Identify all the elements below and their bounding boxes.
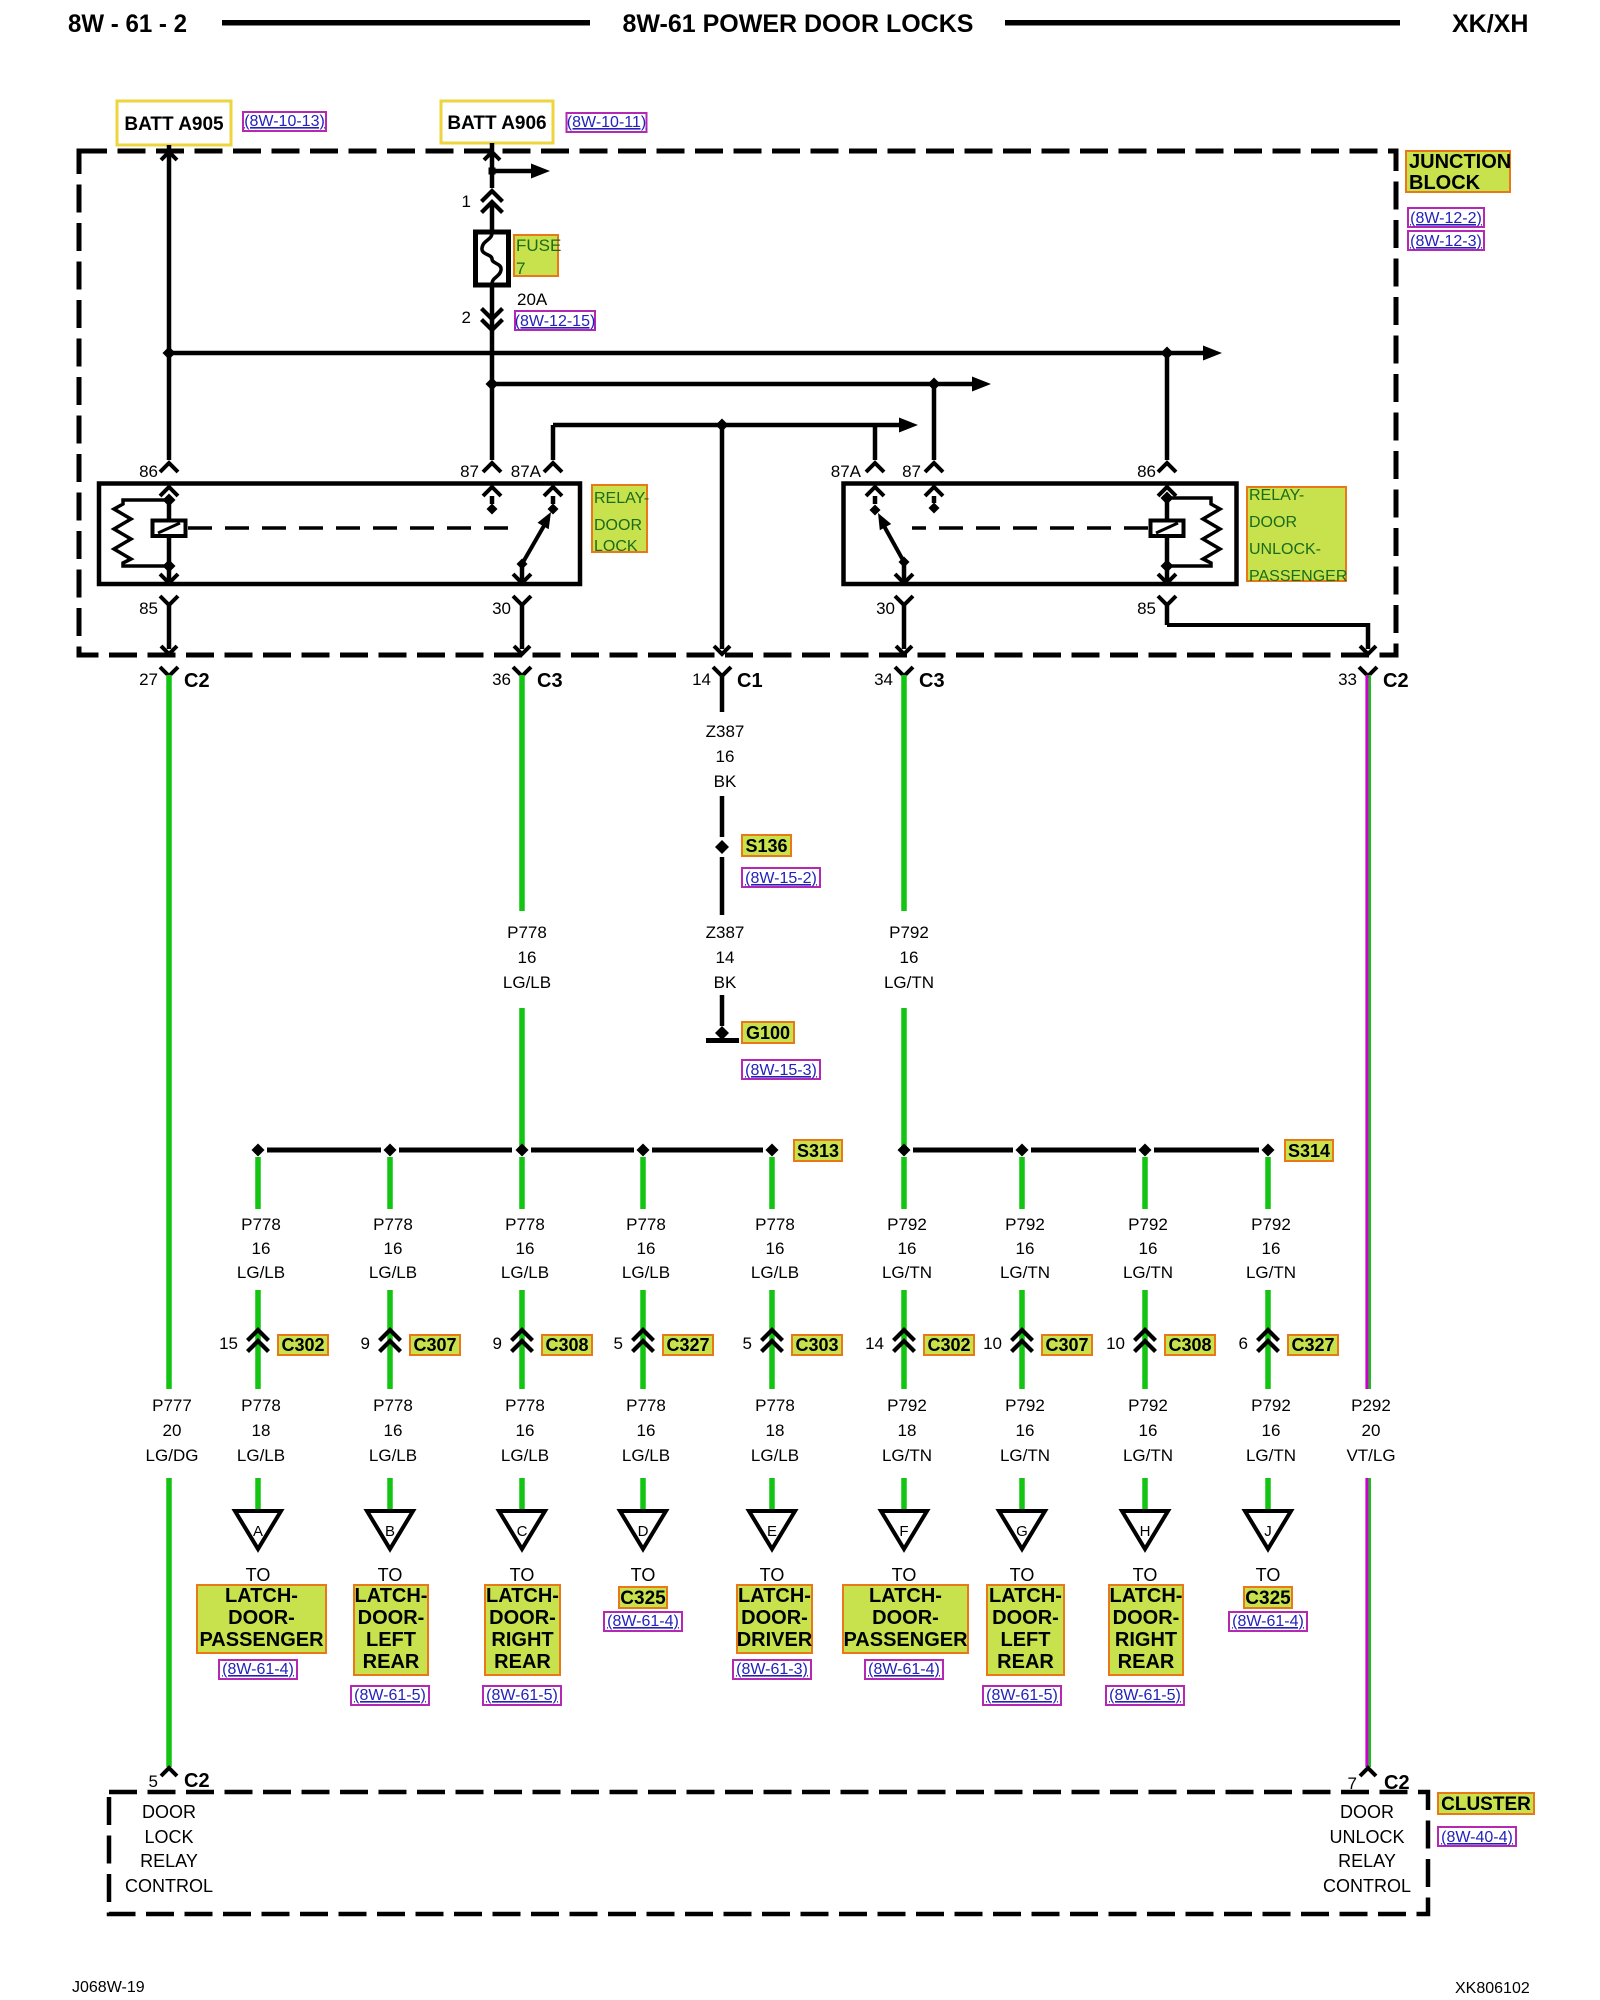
coil relay K2 bbox=[1151, 492, 1221, 573]
svg-text:8W - 61 - 2: 8W - 61 - 2 bbox=[68, 10, 187, 38]
offpage triangle C bbox=[499, 1511, 545, 1549]
link 8W-15-2 bbox=[742, 868, 820, 887]
offpage triangle J bbox=[1245, 1511, 1291, 1549]
pin 85 relay K1 bbox=[139, 566, 178, 618]
connector C1 pin 14 bbox=[692, 646, 763, 692]
svg-text:(8W-61-5): (8W-61-5) bbox=[354, 1687, 426, 1704]
svg-text:RIGHT: RIGHT bbox=[491, 1629, 553, 1651]
svg-text:S136: S136 bbox=[745, 836, 787, 856]
power feed BATT A906 bbox=[441, 101, 553, 143]
svg-text:DOOR-: DOOR- bbox=[1113, 1607, 1180, 1629]
wire branch E to triangle bbox=[769, 1478, 775, 1512]
svg-text:16: 16 bbox=[1139, 1421, 1158, 1440]
connector C327 pin 5 bbox=[614, 1330, 713, 1355]
svg-text:DOOR: DOOR bbox=[594, 517, 642, 534]
label P778 16 LG/LB branch B bbox=[369, 1215, 417, 1282]
pin 87A relay K1 bbox=[511, 462, 562, 515]
svg-text:XK806102: XK806102 bbox=[1455, 1980, 1530, 1997]
label P792 16 LG/TN branch J bbox=[1246, 1215, 1296, 1282]
switch blade relay K2 bbox=[878, 513, 910, 568]
svg-text:(8W-61-4): (8W-61-4) bbox=[1232, 1613, 1304, 1630]
svg-text:P778: P778 bbox=[505, 1396, 545, 1415]
fuse F7 bbox=[476, 232, 509, 285]
svg-text:10: 10 bbox=[1106, 1334, 1125, 1353]
svg-text:LG/LB: LG/LB bbox=[501, 1263, 549, 1282]
svg-text:LATCH-: LATCH- bbox=[1110, 1585, 1183, 1607]
svg-text:H: H bbox=[1140, 1523, 1151, 1540]
cluster module boundary bbox=[109, 1792, 1428, 1914]
svg-text:P792: P792 bbox=[1005, 1396, 1045, 1415]
splice S314 label bbox=[1285, 1140, 1333, 1161]
svg-text:LOCK: LOCK bbox=[594, 538, 638, 555]
svg-text:5: 5 bbox=[614, 1334, 623, 1353]
svg-text:(8W-61-5): (8W-61-5) bbox=[1109, 1687, 1181, 1704]
svg-text:DOOR-: DOOR- bbox=[872, 1607, 939, 1629]
svg-text:18: 18 bbox=[252, 1421, 271, 1440]
svg-text:UNLOCK: UNLOCK bbox=[1329, 1827, 1404, 1847]
svg-text:16: 16 bbox=[384, 1421, 403, 1440]
wire pin30 K1 to C3-36 bbox=[520, 604, 525, 649]
svg-text:8W-61 POWER DOOR LOCKS: 8W-61 POWER DOOR LOCKS bbox=[623, 10, 974, 38]
wire branch D to triangle bbox=[640, 1478, 646, 1512]
wire branch J mid bbox=[1265, 1290, 1271, 1389]
svg-text:(8W-12-2): (8W-12-2) bbox=[1410, 210, 1482, 227]
svg-text:BK: BK bbox=[714, 772, 737, 791]
label P778 16 LG/LB branch A bbox=[237, 1215, 285, 1282]
svg-text:BATT A905: BATT A905 bbox=[124, 114, 224, 135]
wire fuse input bbox=[490, 205, 495, 232]
wire P778 trunk from C3-36 bbox=[519, 675, 525, 911]
label door unlock relay control bbox=[1323, 1802, 1411, 1896]
svg-text:LG/TN: LG/TN bbox=[1123, 1263, 1173, 1282]
connector C327 pin 6 bbox=[1239, 1330, 1338, 1355]
svg-text:1: 1 bbox=[462, 192, 471, 211]
svg-text:30: 30 bbox=[492, 599, 511, 618]
connector C302 pin 14 bbox=[865, 1330, 974, 1355]
svg-text:PASSENGER: PASSENGER bbox=[843, 1629, 968, 1651]
svg-text:85: 85 bbox=[1137, 599, 1156, 618]
svg-text:E: E bbox=[767, 1523, 777, 1540]
svg-text:16: 16 bbox=[637, 1239, 656, 1258]
svg-text:D: D bbox=[638, 1523, 649, 1540]
wire branch F to triangle bbox=[901, 1478, 907, 1512]
wire Z387 ground leg upper bbox=[720, 676, 725, 712]
link (8W-61-4) at x904 bbox=[865, 1660, 943, 1679]
power feed BATT A905 bbox=[117, 101, 231, 145]
wire rail 87A common bbox=[553, 418, 918, 461]
svg-text:JUNCTION: JUNCTION bbox=[1409, 151, 1511, 173]
svg-text:16: 16 bbox=[637, 1421, 656, 1440]
offpage triangle E bbox=[749, 1511, 795, 1549]
svg-text:C327: C327 bbox=[666, 1335, 709, 1355]
svg-text:14: 14 bbox=[865, 1334, 884, 1353]
svg-text:CONTROL: CONTROL bbox=[125, 1876, 213, 1896]
pin 86 relay K2 bbox=[1137, 462, 1176, 498]
svg-text:C307: C307 bbox=[413, 1335, 456, 1355]
svg-text:DOOR-: DOOR- bbox=[228, 1607, 295, 1629]
svg-text:C302: C302 bbox=[927, 1335, 970, 1355]
svg-text:16: 16 bbox=[252, 1239, 271, 1258]
svg-text:P778: P778 bbox=[755, 1396, 795, 1415]
svg-text:2: 2 bbox=[462, 308, 471, 327]
svg-text:FUSE: FUSE bbox=[516, 236, 561, 255]
svg-text:S314: S314 bbox=[1288, 1141, 1330, 1161]
offpage triangle D bbox=[620, 1511, 666, 1549]
label P792 16 LG/TN trunk bbox=[884, 923, 934, 992]
svg-text:P792: P792 bbox=[1251, 1396, 1291, 1415]
svg-text:G: G bbox=[1016, 1523, 1028, 1540]
svg-text:16: 16 bbox=[1016, 1421, 1035, 1440]
destination label at x522 bbox=[485, 1565, 560, 1675]
svg-text:DOOR: DOOR bbox=[142, 1802, 196, 1822]
svg-text:18: 18 bbox=[898, 1421, 917, 1440]
coil relay K1 bbox=[114, 494, 186, 573]
svg-text:LG/LB: LG/LB bbox=[237, 1263, 285, 1282]
svg-text:(8W-15-3): (8W-15-3) bbox=[745, 1062, 817, 1079]
svg-text:36: 36 bbox=[492, 670, 511, 689]
junction block label bbox=[1406, 151, 1511, 194]
label P792 16 LG/TN branch F bbox=[882, 1215, 932, 1282]
svg-text:(8W-15-2): (8W-15-2) bbox=[745, 870, 817, 887]
link 8W-12-3 bbox=[1408, 231, 1484, 250]
svg-text:16: 16 bbox=[1016, 1239, 1035, 1258]
svg-text:LEFT: LEFT bbox=[1001, 1629, 1051, 1651]
svg-text:C307: C307 bbox=[1045, 1335, 1088, 1355]
svg-text:LG/DG: LG/DG bbox=[146, 1446, 199, 1465]
svg-text:VT/LG: VT/LG bbox=[1346, 1446, 1395, 1465]
svg-text:P792: P792 bbox=[1128, 1215, 1168, 1234]
svg-text:87: 87 bbox=[902, 462, 921, 481]
wire rail from A905 to relay2 pin 86 bbox=[163, 346, 1223, 461]
label P792 16 LG/TN branch H lower bbox=[1123, 1396, 1173, 1465]
connector C302 pin 15 bbox=[219, 1330, 328, 1355]
junction node with offpage arrow bbox=[489, 164, 551, 179]
svg-text:14: 14 bbox=[716, 948, 735, 967]
svg-text:REAR: REAR bbox=[363, 1651, 420, 1673]
svg-text:LG/TN: LG/TN bbox=[1246, 1263, 1296, 1282]
svg-text:16: 16 bbox=[384, 1239, 403, 1258]
destination label at x904 bbox=[843, 1565, 968, 1653]
svg-text:TO: TO bbox=[378, 1565, 403, 1585]
svg-text:9: 9 bbox=[493, 1334, 502, 1353]
destination label at x390 bbox=[354, 1565, 428, 1675]
link 8W-10-11 bbox=[567, 113, 647, 132]
svg-text:C2: C2 bbox=[184, 1770, 210, 1792]
svg-text:CLUSTER: CLUSTER bbox=[1441, 1794, 1531, 1815]
pin 86 relay K1 bbox=[139, 462, 178, 500]
wire branch H to triangle bbox=[1142, 1478, 1148, 1512]
svg-text:P778: P778 bbox=[626, 1396, 666, 1415]
wire branch B to triangle bbox=[387, 1478, 393, 1512]
pin 30 relay K1 bbox=[492, 564, 531, 618]
svg-text:TO: TO bbox=[510, 1565, 535, 1585]
connector C303 pin 5 bbox=[743, 1330, 842, 1355]
label P778 16 LG/LB trunk bbox=[503, 923, 551, 992]
svg-text:(8W-61-5): (8W-61-5) bbox=[486, 1687, 558, 1704]
svg-text:87A: 87A bbox=[511, 462, 542, 481]
cluster label bbox=[1438, 1793, 1534, 1815]
svg-text:J068W-19: J068W-19 bbox=[72, 1979, 145, 1996]
svg-text:C3: C3 bbox=[537, 670, 563, 692]
svg-text:RELAY-: RELAY- bbox=[1249, 487, 1304, 504]
label P778 18 LG/LB branch A lower bbox=[237, 1396, 285, 1465]
svg-text:27: 27 bbox=[139, 670, 158, 689]
ground G100 label bbox=[742, 1022, 794, 1043]
connector pin 2 of fuse bbox=[462, 308, 503, 330]
svg-text:PASSENGER: PASSENGER bbox=[1249, 568, 1347, 585]
branch G stub bbox=[1019, 1157, 1025, 1209]
svg-text:C302: C302 bbox=[281, 1335, 324, 1355]
svg-text:LG/LB: LG/LB bbox=[501, 1446, 549, 1465]
svg-text:87A: 87A bbox=[831, 462, 862, 481]
svg-text:C: C bbox=[517, 1523, 528, 1540]
svg-text:LG/TN: LG/TN bbox=[1246, 1446, 1296, 1465]
svg-text:P792: P792 bbox=[1128, 1396, 1168, 1415]
svg-text:RELAY-: RELAY- bbox=[594, 490, 649, 507]
connector C3 pin 34 bbox=[874, 646, 945, 692]
svg-text:C303: C303 bbox=[795, 1335, 838, 1355]
wire branch E mid bbox=[769, 1290, 775, 1389]
connector pin 1 of fuse bbox=[462, 191, 503, 213]
svg-text:TO: TO bbox=[631, 1565, 656, 1585]
svg-text:16: 16 bbox=[1262, 1421, 1281, 1440]
svg-text:9: 9 bbox=[361, 1334, 370, 1353]
wire P292 lower violet bbox=[1367, 1478, 1370, 1767]
svg-text:16: 16 bbox=[900, 948, 919, 967]
connector C308 pin 10 bbox=[1106, 1330, 1215, 1355]
label door lock relay control bbox=[125, 1802, 213, 1896]
wire drop to C1 bbox=[720, 425, 725, 649]
wire P777 lower bbox=[166, 1478, 172, 1767]
svg-text:LOCK: LOCK bbox=[144, 1827, 193, 1847]
coil to blade dashed link bbox=[188, 526, 514, 530]
svg-text:RELAY: RELAY bbox=[1338, 1851, 1396, 1871]
offpage triangle F bbox=[881, 1511, 927, 1549]
link (8W-61-4) at x1268 bbox=[1229, 1612, 1307, 1631]
label Z387 14 BK bbox=[706, 923, 745, 992]
link (8W-61-5) at x390 bbox=[351, 1686, 429, 1705]
wire P792 trunk from C3-34 bbox=[901, 675, 907, 911]
svg-text:16: 16 bbox=[516, 1421, 535, 1440]
svg-text:UNLOCK-: UNLOCK- bbox=[1249, 541, 1321, 558]
svg-text:(8W-12-15): (8W-12-15) bbox=[515, 313, 596, 330]
svg-text:33: 33 bbox=[1338, 670, 1357, 689]
wire branch B mid bbox=[387, 1290, 393, 1389]
label Z387 16 BK bbox=[706, 722, 745, 791]
label P778 16 LG/LB branch C lower bbox=[501, 1396, 549, 1465]
label P792 16 LG/TN branch G bbox=[1000, 1215, 1050, 1282]
svg-text:86: 86 bbox=[139, 462, 158, 481]
wire Z387 to splice bbox=[720, 796, 725, 837]
offpage triangle B bbox=[367, 1511, 413, 1549]
ground G100 bbox=[706, 1026, 739, 1043]
relay K1 label bbox=[592, 485, 649, 555]
svg-text:P792: P792 bbox=[1005, 1215, 1045, 1234]
link 8W-10-13 bbox=[243, 112, 326, 131]
label P792 16 LG/TN branch J lower bbox=[1246, 1396, 1296, 1465]
destination label at x1268 bbox=[1244, 1565, 1292, 1609]
svg-text:P792: P792 bbox=[887, 1215, 927, 1234]
svg-text:REAR: REAR bbox=[494, 1651, 551, 1673]
destination label at x1145 bbox=[1109, 1565, 1183, 1675]
link (8W-61-5) at x522 bbox=[483, 1686, 561, 1705]
svg-text:J: J bbox=[1264, 1523, 1272, 1540]
link (8W-61-5) at x1022 bbox=[983, 1686, 1061, 1705]
svg-text:10: 10 bbox=[983, 1334, 1002, 1353]
splice S136 label bbox=[742, 835, 791, 856]
pin 87 relay K1 bbox=[460, 462, 501, 515]
svg-text:LATCH-: LATCH- bbox=[869, 1585, 942, 1607]
svg-text:F: F bbox=[899, 1523, 908, 1540]
svg-text:(8W-10-11): (8W-10-11) bbox=[567, 114, 646, 131]
connector C3 pin 36 bbox=[492, 646, 563, 692]
svg-text:Z387: Z387 bbox=[706, 923, 745, 942]
offpage triangle A bbox=[235, 1511, 281, 1549]
svg-text:16: 16 bbox=[516, 1239, 535, 1258]
svg-text:BLOCK: BLOCK bbox=[1409, 172, 1481, 194]
svg-text:TO: TO bbox=[246, 1565, 271, 1585]
label P778 16 LG/LB branch D lower bbox=[622, 1396, 670, 1465]
branch A stub bbox=[255, 1157, 261, 1209]
link (8W-61-3) at x772 bbox=[733, 1660, 811, 1679]
svg-text:TO: TO bbox=[1010, 1565, 1035, 1585]
svg-text:LG/TN: LG/TN bbox=[882, 1446, 932, 1465]
svg-text:LG/LB: LG/LB bbox=[751, 1263, 799, 1282]
wire branch D mid bbox=[640, 1290, 646, 1389]
wire pin85 K2 to C2-33 bbox=[1167, 604, 1368, 649]
label P778 16 LG/LB branch E bbox=[751, 1215, 799, 1282]
svg-text:14: 14 bbox=[692, 670, 711, 689]
relay K1 door lock outline bbox=[99, 484, 580, 585]
svg-text:CONTROL: CONTROL bbox=[1323, 1876, 1411, 1896]
splice S136 bbox=[715, 840, 729, 854]
svg-text:LATCH-: LATCH- bbox=[738, 1585, 811, 1607]
branch E stub bbox=[769, 1157, 775, 1209]
svg-text:BATT A906: BATT A906 bbox=[447, 113, 546, 134]
svg-text:(8W-61-4): (8W-61-4) bbox=[222, 1661, 294, 1678]
svg-text:LG/TN: LG/TN bbox=[1123, 1446, 1173, 1465]
svg-text:LATCH-: LATCH- bbox=[355, 1585, 428, 1607]
wire branch G mid bbox=[1019, 1290, 1025, 1389]
link (8W-61-4) at x258 bbox=[219, 1660, 297, 1679]
svg-text:RIGHT: RIGHT bbox=[1115, 1629, 1177, 1651]
svg-text:TO: TO bbox=[1133, 1565, 1158, 1585]
link 8W-12-15 bbox=[515, 311, 596, 330]
branch F stub bbox=[901, 1157, 907, 1209]
svg-text:LG/LB: LG/LB bbox=[622, 1263, 670, 1282]
svg-text:34: 34 bbox=[874, 670, 893, 689]
svg-text:REAR: REAR bbox=[997, 1651, 1054, 1673]
wire P792 trunk lower bbox=[901, 1008, 907, 1150]
svg-text:15: 15 bbox=[219, 1334, 238, 1353]
link (8W-61-4) at x643 bbox=[604, 1612, 682, 1631]
pin 30 relay K2 bbox=[876, 562, 913, 618]
svg-text:16: 16 bbox=[1139, 1239, 1158, 1258]
svg-text:(8W-61-4): (8W-61-4) bbox=[868, 1661, 940, 1678]
page header title bbox=[68, 10, 1528, 38]
svg-text:BK: BK bbox=[714, 973, 737, 992]
svg-text:DOOR-: DOOR- bbox=[358, 1607, 425, 1629]
svg-text:P792: P792 bbox=[1251, 1215, 1291, 1234]
wire branch H mid bbox=[1142, 1290, 1148, 1389]
wire BATT A906 feed bbox=[484, 143, 500, 188]
svg-text:RELAY: RELAY bbox=[140, 1851, 198, 1871]
footer sheet codes bbox=[72, 1979, 1530, 1997]
svg-text:30: 30 bbox=[876, 599, 895, 618]
svg-text:86: 86 bbox=[1137, 462, 1156, 481]
svg-text:7: 7 bbox=[516, 259, 525, 278]
svg-text:LG/TN: LG/TN bbox=[884, 973, 934, 992]
label P778 16 LG/LB branch D bbox=[622, 1215, 670, 1282]
svg-text:P778: P778 bbox=[373, 1396, 413, 1415]
pin 87 relay K2 bbox=[902, 462, 943, 514]
wire branch A to triangle bbox=[255, 1478, 261, 1512]
branch J stub bbox=[1265, 1157, 1271, 1209]
svg-text:5: 5 bbox=[149, 1772, 158, 1791]
wire branch A mid bbox=[255, 1290, 261, 1389]
coil to blade dashed link K2 bbox=[912, 526, 1148, 530]
wire P292 right trunk violet bbox=[1367, 675, 1370, 1389]
svg-text:20: 20 bbox=[163, 1421, 182, 1440]
wire rail fuse output to relay2 pin 87 bbox=[486, 377, 992, 461]
svg-text:DRIVER: DRIVER bbox=[737, 1629, 813, 1651]
svg-text:TO: TO bbox=[760, 1565, 785, 1585]
svg-text:P777: P777 bbox=[152, 1396, 192, 1415]
wire P777 left trunk bbox=[166, 675, 172, 1389]
svg-text:C2: C2 bbox=[1383, 670, 1409, 692]
link 8W-12-2 bbox=[1408, 208, 1484, 227]
svg-text:C2: C2 bbox=[184, 670, 210, 692]
junction block boundary bbox=[79, 151, 1396, 655]
svg-text:C308: C308 bbox=[1168, 1335, 1211, 1355]
svg-text:C1: C1 bbox=[737, 670, 763, 692]
destination label at x1022 bbox=[987, 1565, 1064, 1675]
label P792 16 LG/TN branch G lower bbox=[1000, 1396, 1050, 1465]
svg-text:(8W-61-4): (8W-61-4) bbox=[607, 1613, 679, 1630]
svg-text:16: 16 bbox=[1262, 1239, 1281, 1258]
wire P778 trunk lower bbox=[519, 1008, 525, 1150]
relay K2 label bbox=[1247, 487, 1347, 585]
svg-text:LG/LB: LG/LB bbox=[369, 1263, 417, 1282]
svg-text:LATCH-: LATCH- bbox=[486, 1585, 559, 1607]
connector C308 pin 9 bbox=[493, 1330, 592, 1355]
wire pin85 K1 to C2-27 bbox=[167, 604, 172, 649]
splice bus S314 bbox=[898, 1144, 1275, 1157]
svg-text:LG/LB: LG/LB bbox=[751, 1446, 799, 1465]
svg-text:P792: P792 bbox=[889, 923, 929, 942]
pin 85 relay K2 bbox=[1137, 566, 1176, 618]
relay K2 door unlock outline bbox=[844, 484, 1237, 585]
wire fuse output bbox=[490, 285, 495, 460]
svg-text:(8W-12-3): (8W-12-3) bbox=[1410, 233, 1482, 250]
label P777 20 LG/DG bbox=[146, 1396, 199, 1465]
svg-text:B: B bbox=[385, 1523, 395, 1540]
svg-text:A: A bbox=[253, 1523, 263, 1540]
label P778 16 LG/LB branch B lower bbox=[369, 1396, 417, 1465]
svg-text:(8W-61-3): (8W-61-3) bbox=[736, 1661, 808, 1678]
svg-text:20A: 20A bbox=[517, 290, 548, 309]
svg-text:REAR: REAR bbox=[1118, 1651, 1175, 1673]
branch D stub bbox=[640, 1157, 646, 1209]
branch H stub bbox=[1142, 1157, 1148, 1209]
svg-text:LATCH-: LATCH- bbox=[225, 1585, 298, 1607]
svg-text:85: 85 bbox=[139, 599, 158, 618]
svg-text:TO: TO bbox=[1256, 1565, 1281, 1585]
label P778 16 LG/LB branch C bbox=[501, 1215, 549, 1282]
value 20A bbox=[517, 290, 548, 309]
connector C2 pin 7 bbox=[1348, 1768, 1410, 1794]
wire branch F mid bbox=[901, 1290, 907, 1389]
